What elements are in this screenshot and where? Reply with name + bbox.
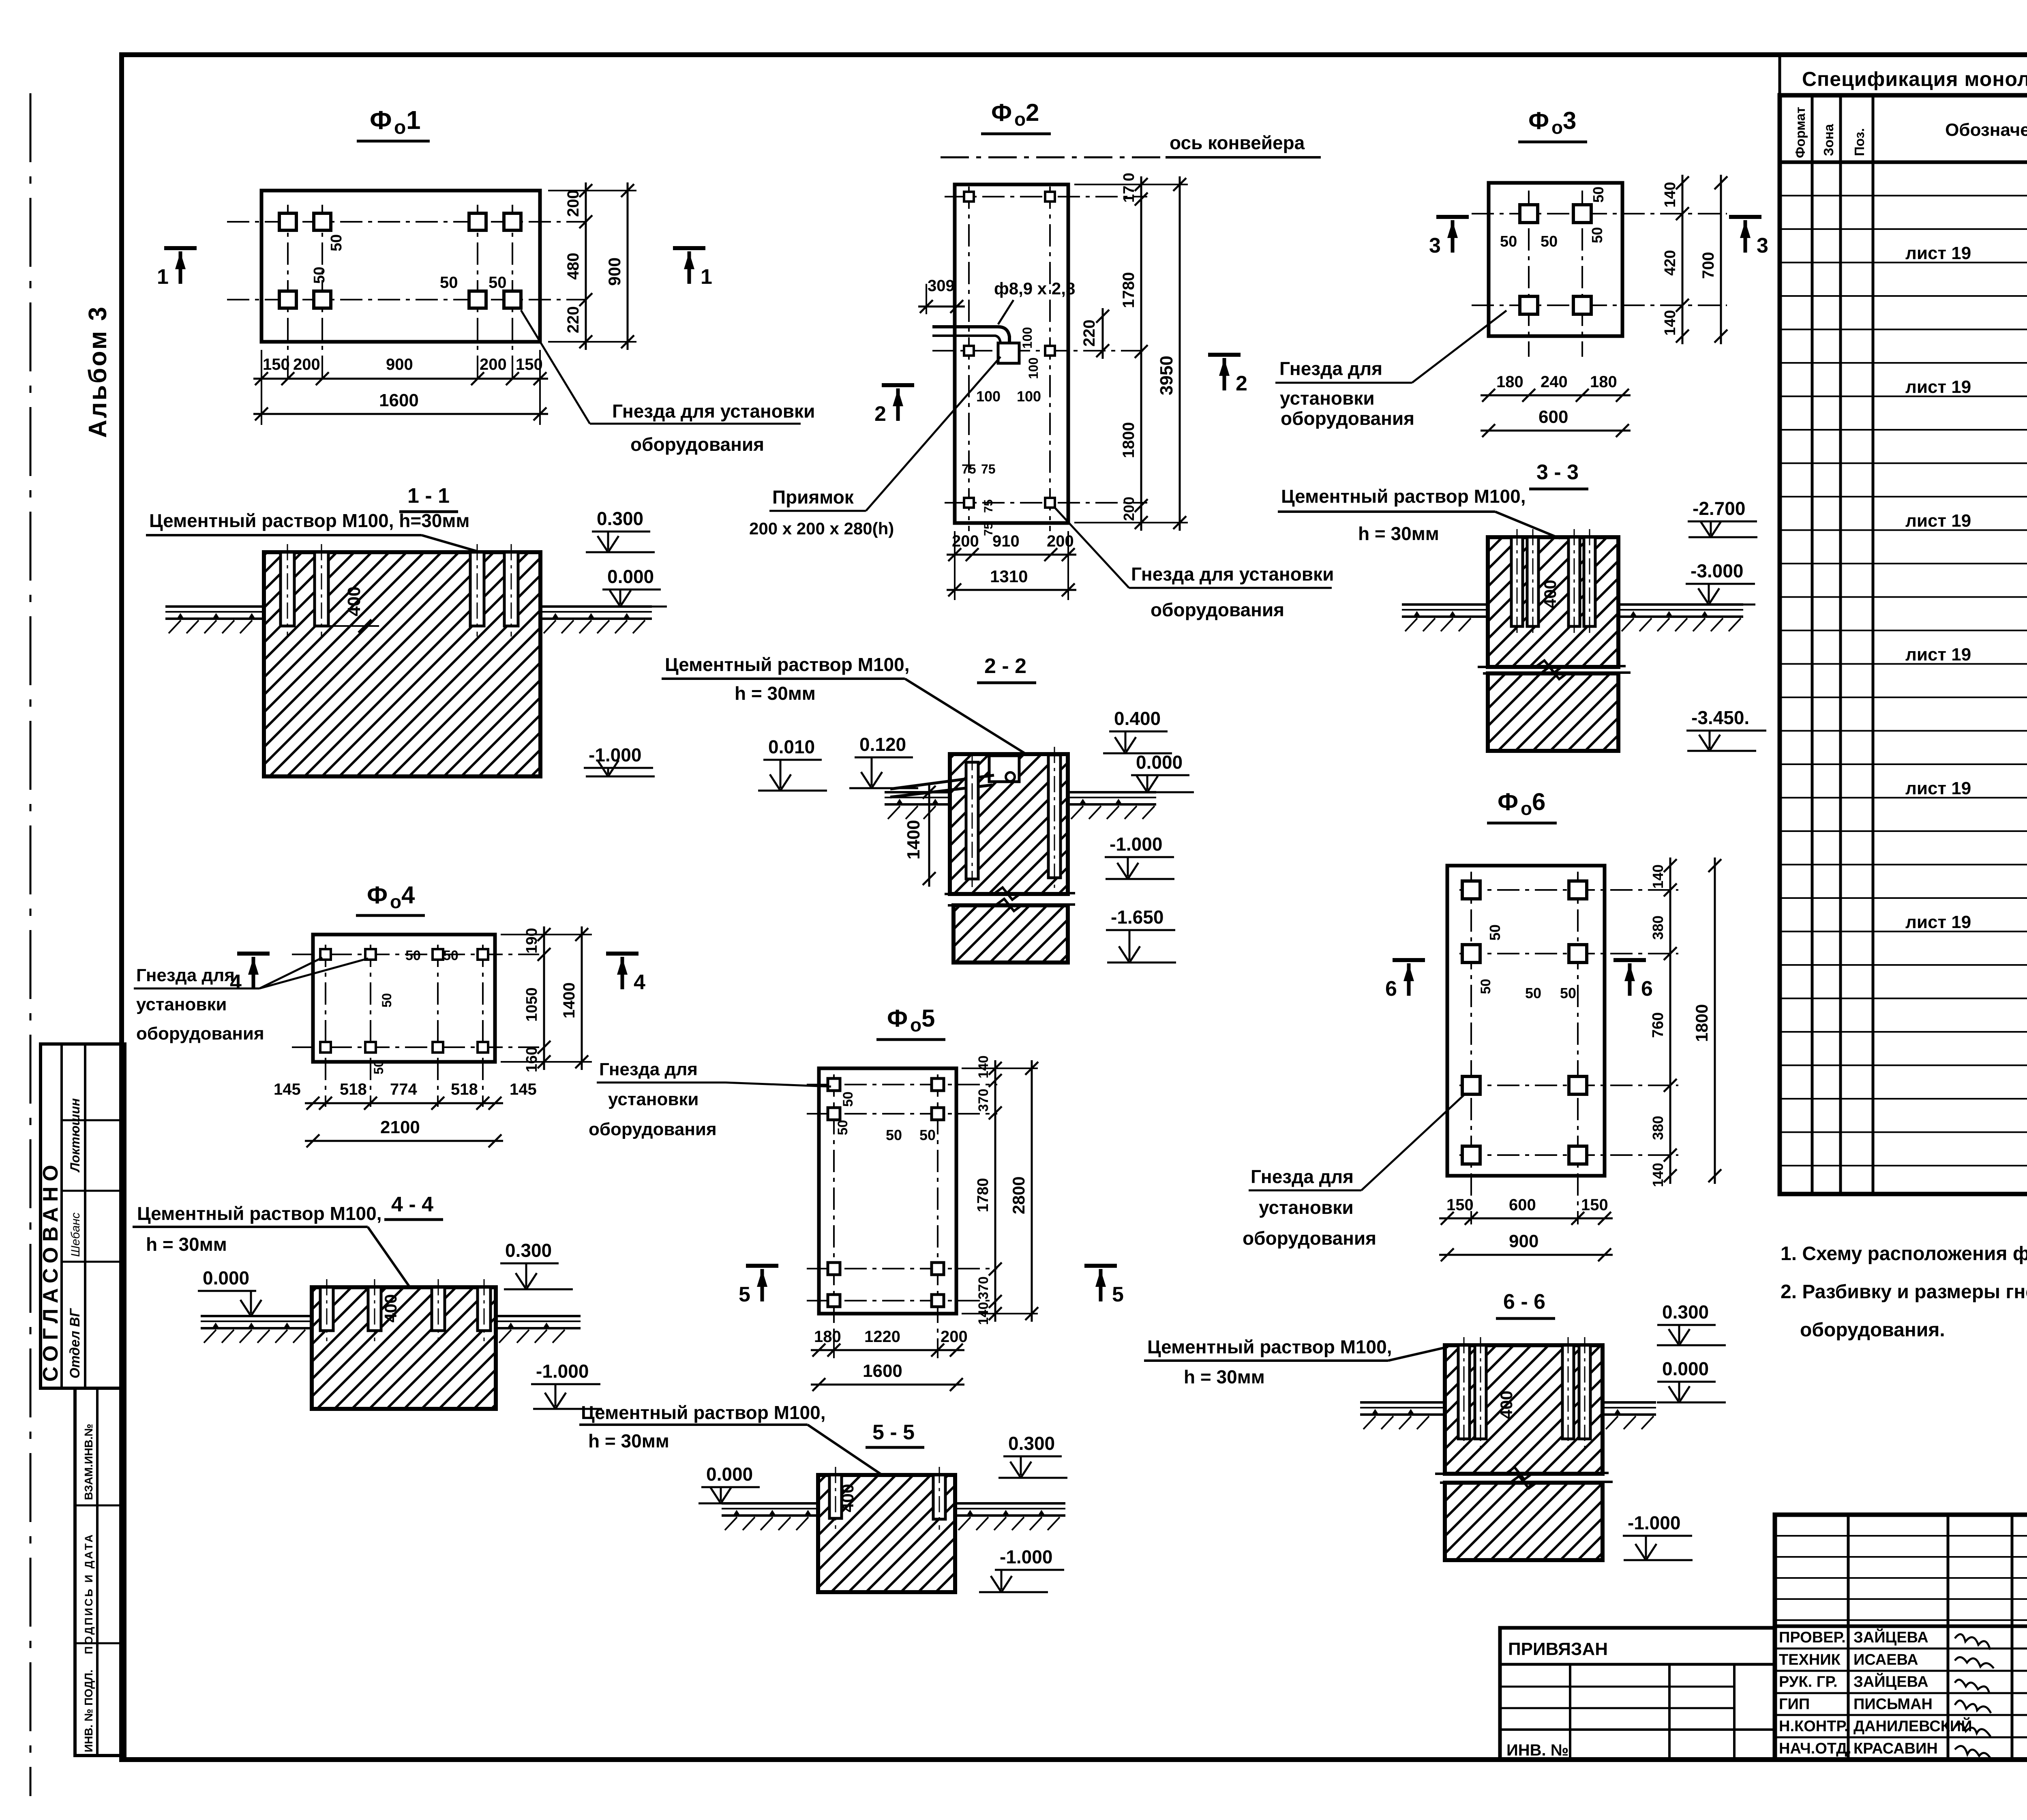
svg-text:лист 19: лист 19 [1905,243,1971,263]
section mark 1 left [164,246,197,250]
svg-text:600: 600 [1538,407,1568,427]
svg-text:лист 19: лист 19 [1905,912,1971,932]
svg-text:Цементный раствор М100,: Цементный раствор М100, [1147,1336,1392,1357]
svg-text:50: 50 [1590,187,1607,203]
privyazan block [1500,1628,1775,1760]
svg-text:600: 600 [1509,1196,1536,1214]
Fo1 bottom dim row 1 [261,350,262,389]
svg-text:50: 50 [1541,233,1558,250]
svg-text:3 - 3: 3 - 3 [1536,461,1579,484]
svg-text:1220: 1220 [864,1328,900,1346]
svg-text:700: 700 [1699,252,1717,279]
svg-text:1. Схему расположения фундам: 1. Схему расположения фундаментов см лис… [1781,1243,2027,1265]
floor slab left of 6-6 [1360,1401,1445,1404]
anchor sleeves 2-2 [966,762,978,879]
pit pipe (priyamok) [932,327,1009,343]
svg-text:760: 760 [1650,1012,1667,1038]
svg-text:480: 480 [564,253,582,280]
section 2-2 pit recess [989,756,1019,782]
floor slab left of 4-4 [201,1315,312,1317]
Fo6 centerlines [1470,872,1472,1224]
svg-text:1800: 1800 [1120,422,1138,458]
svg-text:3: 3 [1757,234,1768,257]
svg-text:0.010: 0.010 [768,736,815,757]
Fo3 centerlines [1528,191,1530,357]
svg-text:-2.700: -2.700 [1693,498,1745,519]
svg-text:Цементный раствор М100, h=30мм: Цементный раствор М100, h=30мм [149,510,469,531]
svg-text:150: 150 [516,356,543,373]
Fo5 outline [819,1068,956,1314]
svg-text:900: 900 [1509,1231,1538,1251]
svg-text:50: 50 [835,1120,851,1135]
svg-text:Поз.: Поз. [1852,128,1867,156]
Fo5 right dims inner [962,1068,1038,1069]
section 5-5 concrete block [818,1475,955,1592]
floor slab left of 3-3 [1402,603,1488,606]
Fo1 centerlines [287,205,289,379]
svg-text:400: 400 [1497,1391,1516,1419]
svg-text:50: 50 [1500,233,1517,250]
svg-text:910: 910 [992,532,1020,550]
svg-text:Шебанс: Шебанс [69,1213,82,1257]
svg-text:Ф: Ф [367,881,388,909]
Fo1 anchor sockets [279,213,296,230]
svg-text:140: 140 [1662,182,1679,208]
svg-text:50: 50 [1525,985,1541,1001]
svg-text:0.000: 0.000 [203,1267,249,1288]
break lines 3-3 [1478,660,1626,673]
svg-text:180: 180 [1590,373,1617,391]
floor slab right of 2-2 [1068,791,1156,793]
Fo6 bottom dims [1439,1218,1613,1220]
Fo4 right dims inner [501,934,592,935]
svg-text:1: 1 [701,265,712,289]
svg-text:1780: 1780 [975,1178,992,1212]
svg-text:Гнезда для: Гнезда для [136,965,235,985]
Fo3 right dims inner [1682,175,1684,344]
svg-text:КРАСАВИН: КРАСАВИН [1853,1740,1938,1757]
svg-text:-1.000: -1.000 [536,1361,589,1382]
svg-text:5: 5 [739,1283,750,1306]
svg-text:6: 6 [1385,977,1397,1001]
svg-text:ПОДПИСЬ И ДАТА: ПОДПИСЬ И ДАТА [83,1533,95,1654]
svg-text:50: 50 [379,993,394,1008]
svg-text:оборудования: оборудования [1151,599,1284,620]
svg-text:0.300: 0.300 [1008,1433,1055,1454]
Fo6 right dims outer [1714,857,1716,1184]
svg-text:о: о [1521,798,1532,819]
svg-text:1600: 1600 [379,390,419,410]
svg-text:h = 30мм: h = 30мм [1358,523,1439,544]
svg-text:180: 180 [814,1328,841,1346]
svg-text:Цементный раствор М100,: Цементный раствор М100, [1281,486,1526,507]
section mark 3 right [1729,215,1761,219]
floor slab right of 5-5 [955,1502,1065,1505]
Fo5 right dims outer [1031,1060,1033,1322]
svg-text:1780: 1780 [1120,272,1138,308]
svg-text:518: 518 [451,1080,478,1098]
anchor sleeves 4-4 [320,1287,333,1331]
svg-text:50: 50 [1478,979,1493,994]
Fo2 outline [955,184,1068,523]
svg-text:ПРОВЕР.: ПРОВЕР. [1779,1629,1846,1646]
svg-text:190: 190 [523,928,540,954]
svg-text:Цементный раствор М100,: Цементный раствор М100, [665,654,909,675]
section 2-2 pit pipe [890,775,994,789]
svg-text:6: 6 [1532,788,1545,815]
svg-text:оборудования.: оборудования. [1800,1319,1945,1341]
specification table grid [1780,95,2027,1194]
svg-text:ИСАЕВА: ИСАЕВА [1853,1651,1918,1668]
svg-text:400: 400 [838,1484,857,1512]
floor slab left of 1-1 [165,605,264,608]
svg-text:СОГЛАСОВАНО: СОГЛАСОВАНО [39,1160,62,1382]
svg-text:h = 30мм: h = 30мм [1184,1366,1265,1387]
svg-text:4: 4 [401,881,415,909]
svg-text:100: 100 [1017,388,1041,405]
svg-text:h = 30мм: h = 30мм [146,1234,227,1255]
svg-text:-1.000: -1.000 [1628,1512,1680,1533]
svg-text:370: 370 [976,1276,991,1299]
svg-text:5 - 5: 5 - 5 [872,1421,915,1444]
svg-text:Обозначение: Обозначение [1945,120,2027,140]
svg-text:Ф: Ф [991,99,1012,126]
Fo1 outline [261,191,540,342]
svg-text:Ф: Ф [370,105,392,135]
svg-text:75: 75 [981,462,996,476]
svg-text:1050: 1050 [523,987,540,1022]
Fo2 bottom dims [954,531,956,600]
Fo6 right dims inner [1669,857,1671,1184]
section mark 3 left [1436,215,1469,219]
svg-text:900: 900 [605,257,624,286]
svg-text:2: 2 [874,402,886,426]
Fo1 bottom dim row 2 [261,389,262,425]
svg-text:150: 150 [263,356,290,373]
svg-text:ПИСЬМАН: ПИСЬМАН [1853,1696,1933,1713]
svg-text:900: 900 [386,356,413,373]
svg-text:h = 30мм: h = 30мм [735,683,816,704]
svg-text:420: 420 [1662,250,1679,276]
svg-text:140: 140 [1650,864,1666,889]
anchor sleeves 6-6 [1458,1345,1470,1439]
svg-text:220: 220 [564,306,582,333]
svg-text:140: 140 [976,1055,991,1078]
svg-text:оборудования: оборудования [1243,1228,1376,1249]
conveyor axis line [941,156,1163,159]
svg-text:Гнезда для установки: Гнезда для установки [1131,564,1334,585]
svg-text:Альбом 3: Альбом 3 [84,305,112,438]
svg-text:6: 6 [1641,977,1653,1001]
svg-text:50: 50 [443,948,459,963]
svg-text:оборудования: оборудования [136,1024,264,1044]
svg-text:200: 200 [1047,532,1074,550]
section 4-4 concrete block [312,1287,496,1409]
svg-text:370: 370 [976,1089,991,1112]
Fo6 anchor sockets [1462,881,1480,899]
section mark 5 left [746,1264,778,1268]
svg-text:о: о [394,117,406,138]
svg-text:о: о [910,1014,921,1035]
svg-text:140: 140 [976,1302,991,1325]
svg-text:лист 19: лист 19 [1905,377,1971,397]
svg-text:150: 150 [1446,1196,1474,1214]
svg-text:145: 145 [274,1080,301,1098]
floor slab left of 5-5 [722,1502,818,1505]
Fo1 right dim column outer [627,182,629,350]
svg-text:ЗАЙЦЕВА: ЗАЙЦЕВА [1853,1628,1928,1646]
svg-text:2. Разбивку и размеры гнезд: 2. Разбивку и размеры гнезд уточнить при… [1781,1281,2027,1303]
svg-text:200: 200 [1121,497,1137,521]
svg-text:Спецификация монолитных фунд: Спецификация монолитных фундаментов под … [1802,68,2027,90]
svg-text:774: 774 [390,1080,417,1098]
section mark 2 right [1208,353,1241,357]
svg-text:установки: установки [136,995,227,1014]
svg-text:ВЗАМ.ИНВ.№: ВЗАМ.ИНВ.№ [82,1424,95,1500]
break lines 6-6 [1435,1467,1609,1479]
svg-text:140: 140 [1662,310,1679,336]
floor slab right of 4-4 [496,1315,581,1317]
svg-text:Формат: Формат [1793,107,1808,158]
Fo6 outline [1447,866,1605,1176]
svg-text:0.000: 0.000 [1136,752,1183,773]
svg-text:200: 200 [564,190,582,217]
svg-text:1310: 1310 [990,567,1028,586]
svg-text:-1.000: -1.000 [589,744,641,765]
floor slab left of 2-2 [885,791,950,793]
Fo2 right dim outer [1179,176,1181,531]
Fo2 right dim inner [1074,184,1188,185]
svg-text:Гнезда для: Гнезда для [599,1059,698,1079]
svg-text:ПРИВЯЗАН: ПРИВЯЗАН [1508,1639,1608,1659]
svg-text:0.120: 0.120 [859,734,906,755]
svg-text:Гнезда для установки: Гнезда для установки [612,401,815,422]
svg-text:50: 50 [311,267,328,284]
svg-text:Локтюшин: Локтюшин [68,1098,82,1173]
svg-text:240: 240 [1541,373,1568,391]
Fo5 centerlines [833,1074,835,1358]
Fo4 anchor sockets [320,949,331,960]
Fo3 outline [1489,183,1622,336]
title block staff rows [1775,1648,2027,1650]
svg-text:100: 100 [976,388,1001,405]
svg-text:ТЕХНИК: ТЕХНИК [1779,1651,1841,1668]
svg-text:200: 200 [952,532,979,550]
Fo1 right dim column inner [548,190,636,191]
svg-text:0.000: 0.000 [1662,1358,1709,1379]
break lines 2-2 [945,887,1075,900]
svg-text:0.000: 0.000 [607,566,654,587]
section mark 4 right [606,952,639,956]
Fo4 bottom dim row 1 [305,1102,503,1104]
svg-text:2100: 2100 [380,1117,420,1137]
svg-text:лист 19: лист 19 [1905,645,1971,665]
svg-text:0.000: 0.000 [706,1464,753,1485]
left margin dash-dot line [30,93,32,1796]
svg-text:ИНВ. №: ИНВ. № [1506,1741,1568,1759]
svg-text:лист 19: лист 19 [1905,511,1971,531]
svg-text:140: 140 [1650,1163,1666,1187]
svg-text:50: 50 [440,274,458,292]
svg-text:1400: 1400 [904,820,924,860]
svg-text:50: 50 [919,1127,936,1143]
svg-text:1 - 1: 1 - 1 [407,484,450,508]
svg-text:200: 200 [480,356,507,373]
svg-text:о: о [1551,117,1563,138]
svg-text:Цементный раствор М100,: Цементный раствор М100, [581,1402,825,1423]
svg-text:309: 309 [928,277,955,295]
svg-text:установки: установки [1259,1197,1354,1218]
floor slab right of 1-1 [540,605,652,608]
svg-text:1: 1 [406,105,421,135]
Fo5 bottom dims [811,1349,964,1351]
svg-text:о: о [390,891,401,912]
svg-text:-1.000: -1.000 [1000,1546,1052,1567]
svg-text:2800: 2800 [1009,1177,1028,1214]
svg-text:ДАНИЛЕВСКИЙ: ДАНИЛЕВСКИЙ [1853,1717,1972,1735]
svg-text:50: 50 [489,274,507,292]
svg-text:ЗАЙЦЕВА: ЗАЙЦЕВА [1853,1672,1928,1691]
svg-text:ось конвейера: ось конвейера [1170,132,1305,153]
svg-text:Ф: Ф [1528,107,1549,134]
section 1-1 concrete block [264,552,540,776]
svg-text:3: 3 [1563,107,1576,134]
svg-text:-1.000: -1.000 [1110,834,1162,855]
svg-text:0.400: 0.400 [1114,708,1161,729]
svg-text:ф8,9 х 2,8: ф8,9 х 2,8 [994,279,1075,298]
floor slab right of 6-6 [1603,1401,1656,1404]
svg-text:1400: 1400 [560,982,578,1018]
title block upper empty rows [1775,1535,2027,1537]
anchor sleeves 5-5 [829,1475,842,1518]
svg-text:2: 2 [1236,372,1247,395]
svg-text:Н.КОНТР.: Н.КОНТР. [1779,1718,1849,1735]
Fo5 anchor sockets [828,1078,840,1091]
svg-text:200: 200 [293,356,320,373]
svg-text:о: о [1014,109,1026,130]
svg-text:1800: 1800 [1692,1004,1711,1042]
inventory strip block [75,1388,125,1756]
svg-text:17 0: 17 0 [1121,173,1138,203]
svg-text:50: 50 [328,234,345,251]
svg-text:400: 400 [344,587,364,616]
svg-text:1600: 1600 [863,1361,902,1381]
Fo3 right dims outer [1720,175,1722,344]
svg-text:150: 150 [1581,1196,1608,1214]
section mark 5 right [1084,1264,1117,1268]
svg-text:50: 50 [1487,924,1503,941]
svg-text:145: 145 [510,1080,537,1098]
title block frame [1775,1515,2027,1760]
svg-text:установки: установки [608,1089,699,1109]
svg-text:5: 5 [1112,1283,1124,1306]
Fo4 right dims outer [581,926,583,1070]
section 6-6 concrete block lower [1445,1483,1603,1560]
section mark 2 left [882,383,914,387]
svg-text:400: 400 [1541,580,1560,608]
Fo4 centerlines [325,945,326,1107]
Fo4 bottom dim row 2 [305,1140,503,1142]
approval stamp block [41,1044,125,1388]
svg-text:оборудования: оборудования [630,434,764,455]
svg-text:лист 19: лист 19 [1905,778,1971,798]
svg-text:4 - 4: 4 - 4 [391,1193,433,1216]
svg-text:75: 75 [982,499,995,513]
svg-text:380: 380 [1650,915,1666,940]
svg-text:0.300: 0.300 [597,508,643,529]
svg-text:ИНВ. № ПОДЛ.: ИНВ. № ПОДЛ. [82,1670,95,1752]
svg-text:Гнезда для: Гнезда для [1251,1166,1354,1187]
svg-text:Гнезда для: Гнезда для [1279,358,1382,379]
section mark 4 left [237,952,270,956]
anchor sleeves 1-1 [281,552,294,626]
svg-text:Отдел ВГ: Отдел ВГ [67,1308,83,1378]
section 3-3 concrete block lower [1488,673,1618,751]
svg-text:220: 220 [1080,319,1098,347]
svg-text:180: 180 [1496,373,1523,391]
svg-text:400: 400 [381,1294,400,1323]
Fo4 outline [313,935,495,1062]
svg-text:3950: 3950 [1157,356,1176,395]
svg-text:-3.000: -3.000 [1691,560,1743,581]
svg-text:НАЧ.ОТД.: НАЧ.ОТД. [1779,1740,1851,1757]
svg-text:0.300: 0.300 [505,1240,552,1261]
svg-text:Зона: Зона [1821,124,1836,156]
Fo2 anchor sockets [964,192,974,202]
svg-text:установки: установки [1280,388,1375,409]
svg-text:h = 30мм: h = 30мм [588,1430,669,1451]
spec title cell verticals [1778,57,1781,95]
svg-text:Ф: Ф [887,1005,908,1032]
svg-text:оборудования: оборудования [1281,408,1414,429]
section mark 1 right [673,246,705,250]
svg-text:100: 100 [1020,327,1035,349]
svg-text:0.300: 0.300 [1662,1301,1709,1323]
section mark 6 left [1393,958,1425,962]
section 3-3 concrete block upper [1488,537,1618,667]
svg-text:3: 3 [1429,234,1441,257]
svg-text:Ф: Ф [1498,788,1518,815]
svg-text:160: 160 [523,1047,540,1072]
Fo3 anchor sockets [1520,205,1538,223]
Fo2 centerlines [968,187,970,531]
svg-text:5: 5 [921,1005,935,1032]
section 6-6 concrete block upper [1445,1345,1603,1474]
Fo1 sockets label with leader [521,310,590,424]
svg-text:6 - 6: 6 - 6 [1503,1290,1545,1314]
section mark 6 right [1613,958,1646,962]
svg-text:4: 4 [634,971,645,994]
svg-text:50: 50 [1560,985,1576,1001]
svg-text:-1.650: -1.650 [1111,907,1163,928]
section 2-2 concrete block upper [950,754,1068,894]
svg-text:оборудования: оборудования [589,1119,717,1139]
floor slab right of 3-3 [1618,603,1743,606]
svg-text:2: 2 [1026,99,1039,126]
svg-text:-3.450.: -3.450. [1691,707,1749,728]
svg-text:ГИП: ГИП [1779,1696,1810,1713]
svg-text:100: 100 [1026,358,1041,379]
svg-text:518: 518 [340,1080,367,1098]
svg-text:50: 50 [840,1091,856,1107]
svg-text:50: 50 [371,1060,386,1074]
svg-text:Цементный раствор М100,: Цементный раствор М100, [137,1203,381,1224]
svg-text:1: 1 [157,265,169,289]
svg-text:200: 200 [941,1328,968,1346]
svg-text:200 х 200 х 280(h): 200 х 200 х 280(h) [749,519,894,538]
svg-text:50: 50 [1589,227,1605,243]
svg-text:380: 380 [1650,1116,1666,1140]
